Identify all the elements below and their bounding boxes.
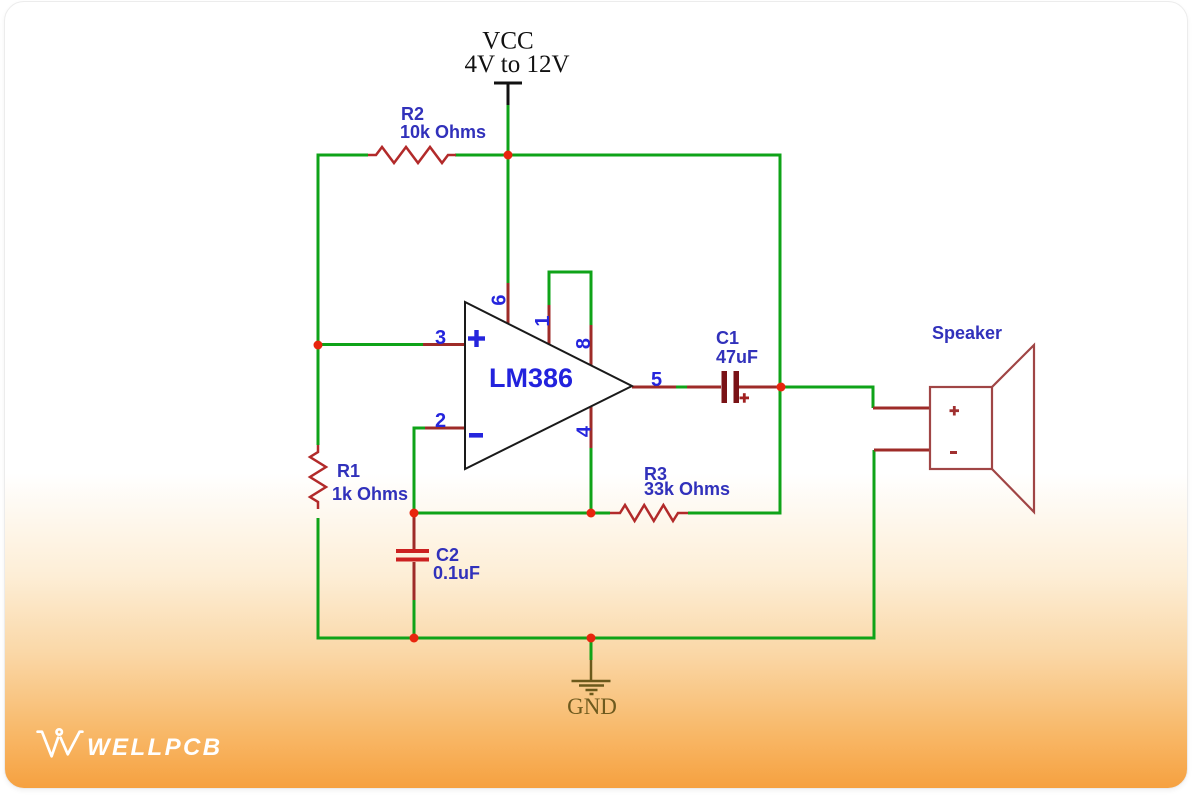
svg-text:6: 6 (489, 294, 511, 305)
svg-text:R1: R1 (337, 461, 360, 481)
svg-text:47uF: 47uF (716, 347, 758, 367)
svg-text:2: 2 (435, 410, 446, 432)
svg-text:4V to 12V: 4V to 12V (464, 51, 569, 78)
svg-text:5: 5 (651, 369, 662, 391)
svg-text:8: 8 (573, 338, 595, 349)
svg-text:3: 3 (435, 327, 446, 349)
svg-text:33k Ohms: 33k Ohms (644, 479, 730, 499)
svg-text:0.1uF: 0.1uF (433, 563, 480, 583)
svg-text:1k Ohms: 1k Ohms (332, 484, 408, 504)
svg-text:Speaker: Speaker (932, 323, 1002, 343)
svg-text:LM386: LM386 (489, 363, 573, 393)
svg-text:10k Ohms: 10k Ohms (400, 122, 486, 142)
svg-text:1: 1 (532, 315, 554, 326)
svg-text:C1: C1 (716, 328, 739, 348)
svg-text:GND: GND (567, 694, 617, 719)
svg-text:C2: C2 (436, 545, 459, 565)
svg-text:R2: R2 (401, 104, 424, 124)
svg-text:WELLPCB: WELLPCB (87, 734, 222, 761)
svg-text:4: 4 (574, 425, 596, 437)
